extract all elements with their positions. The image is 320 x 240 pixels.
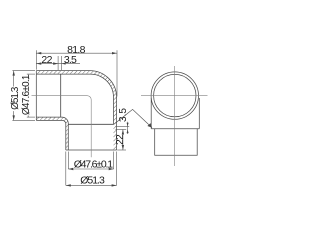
dimension 22/3.5 top line (36, 63, 80, 65)
bottom face line (66, 149, 117, 151)
svg-text:Ø51.3: Ø51.3 (10, 86, 21, 110)
dimension 22 top extension line (57, 56, 59, 70)
dimension 3.5 top extension line (61, 56, 63, 70)
svg-text:3.5: 3.5 (64, 54, 77, 66)
left face line (35, 71, 37, 121)
dimension Ø47.6±0.1 left line (27, 74, 29, 117)
dimension Ø51.3 bottom: extension lines (65, 152, 67, 186)
svg-text:Ø51.3: Ø51.3 (80, 174, 105, 186)
right view: upper body rectangle (151, 98, 199, 129)
dimension 81.8 extension line left (35, 50, 37, 69)
dimension Ø51.3 left: extension lines (12, 70, 35, 72)
socket stop line left socket (60, 74, 62, 117)
svg-text:22: 22 (41, 54, 52, 66)
dimension Ø47.6±0.1 left text (rotated) (21, 75, 29, 116)
right view: horizontal centerline (141, 95, 208, 97)
dimension Ø47.6±0.1 left: extension lines (27, 73, 35, 75)
socket stop line bottom socket (68, 123, 113, 125)
dimension 3.5 right: extension lines (116, 125, 130, 127)
svg-text:Ø47.6±0.1: Ø47.6±0.1 (21, 74, 32, 115)
dimension 81.8 extension line right (116, 50, 118, 96)
dimension Ø47.6±0.1 bottom: extension lines (67, 152, 69, 170)
leader polyline to right view corner (114, 109, 152, 127)
hatched bottom/crotch wall band of elbow section (36, 117, 68, 150)
left view: inner bore top and bend inner (36, 74, 113, 124)
dimension Ø51.3 bottom line (66, 184, 117, 186)
right view: inner circle (154, 74, 196, 116)
svg-text:Ø47.6±0.1: Ø47.6±0.1 (74, 158, 114, 170)
hatched top wall band of elbow section (36, 71, 116, 150)
left view: bottom wall outer and crotch outer (36, 120, 66, 150)
svg-text:22: 22 (115, 134, 126, 145)
centerline horizontal leg with bend arc (32, 96, 92, 158)
dimension 81.8 line (36, 52, 117, 54)
dimension 22 right: extension line (117, 149, 126, 151)
dimension 22 right line (122, 130, 124, 151)
dimension Ø47.6±0.1 bottom line (68, 168, 113, 170)
left view: outer profile top wall and bend (36, 71, 116, 150)
right view: lower body rectangle (155, 129, 198, 155)
right view: vertical centerline (174, 66, 176, 166)
right view: outer circle (151, 72, 198, 119)
dimension Ø51.3 left text (rotated) (10, 87, 17, 112)
dimension 3.5 right line (127, 122, 129, 134)
left view: bottom wall inner and crotch inner (36, 117, 68, 150)
dimension Ø51.3 left line (13, 71, 15, 121)
